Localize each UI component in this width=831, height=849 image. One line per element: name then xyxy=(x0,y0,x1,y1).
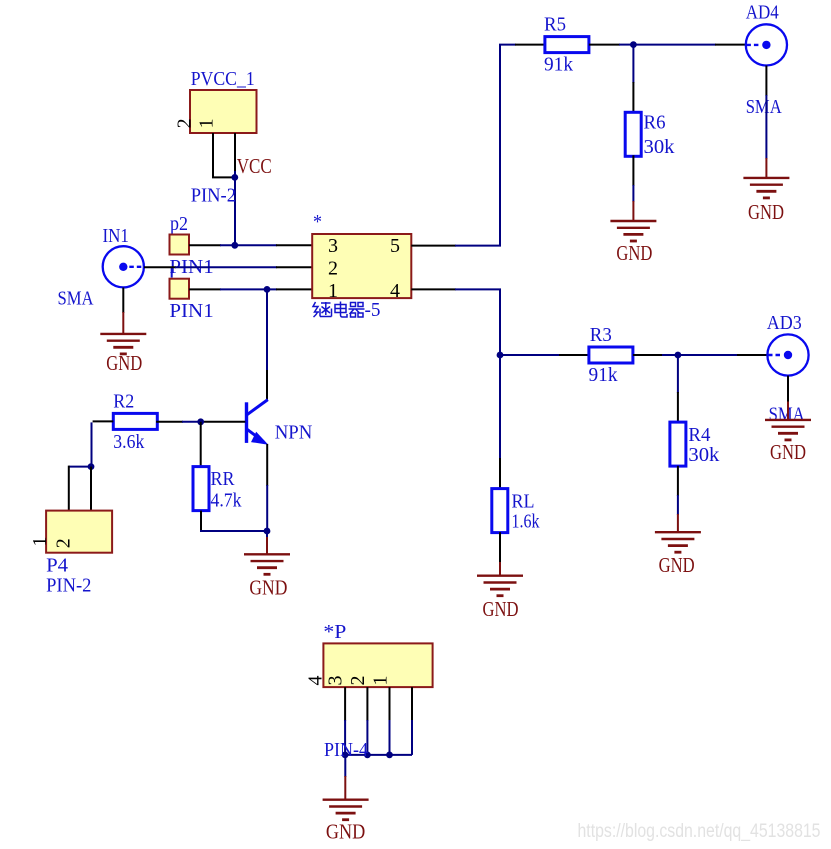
wire IN1 to relay pin2 xyxy=(144,266,312,268)
wire relay pin4 to junction xyxy=(411,289,500,355)
junction *P pin4 xyxy=(342,752,349,759)
svg-text:GND: GND xyxy=(659,553,695,577)
pin number 3 of *P xyxy=(325,676,347,686)
value 30k of R6 xyxy=(644,136,675,158)
wire *P to GND xyxy=(344,755,346,800)
pin number 1 of P4 xyxy=(29,537,51,547)
svg-text:PIN-2: PIN-2 xyxy=(46,575,91,597)
svg-text:PIN1: PIN1 xyxy=(169,300,213,322)
wire junction to P4 pin left xyxy=(69,466,92,511)
label SMA of AD3 xyxy=(769,404,805,426)
junction *P pin2 xyxy=(386,752,393,759)
svg-text:p2: p2 xyxy=(170,213,188,235)
relay type label (CJK) xyxy=(313,302,365,318)
pin number 4 xyxy=(390,280,400,302)
junction base R2 RR xyxy=(197,418,204,425)
junction VCC wire to pin3 wire xyxy=(231,242,238,249)
label R5 xyxy=(544,13,566,35)
wire IN1 to GND xyxy=(122,288,124,334)
svg-text:1: 1 xyxy=(370,676,392,686)
resistor R6 xyxy=(625,112,641,156)
relay body xyxy=(312,234,411,298)
wire R5 to junction xyxy=(589,44,634,46)
watermark xyxy=(578,820,821,842)
svg-text:GND: GND xyxy=(106,351,142,375)
value 3.6k of R2 xyxy=(113,431,144,453)
junction RL R3 xyxy=(497,352,504,359)
value 30k of R4 xyxy=(688,444,719,466)
svg-text:1: 1 xyxy=(328,280,338,302)
connector *P label xyxy=(323,621,346,643)
junction *P pin3 xyxy=(364,752,371,759)
label GND under NPN xyxy=(249,576,287,600)
wire NPN emitter down xyxy=(266,444,268,531)
connector p2 box upper xyxy=(170,235,190,255)
svg-text:VCC: VCC xyxy=(237,154,272,178)
label SMA of IN1 xyxy=(58,288,94,310)
label GND under RL xyxy=(483,597,519,621)
label R6 xyxy=(644,112,666,134)
ground symbol under R6 xyxy=(610,221,656,241)
wire R6 to GND xyxy=(632,155,634,221)
wire AD4 to GND xyxy=(765,66,767,178)
svg-text:PIN-2: PIN-2 xyxy=(191,185,236,207)
svg-text:1.6k: 1.6k xyxy=(512,511,540,533)
wire *P pin1 down xyxy=(411,687,413,755)
wire AD3 to GND xyxy=(787,376,789,420)
resistor R4 xyxy=(670,422,686,466)
label R2 xyxy=(113,391,134,413)
wire p2 upper to relay pin3 xyxy=(189,244,312,246)
svg-text:GND: GND xyxy=(249,576,287,600)
ground symbol under R4 xyxy=(655,532,701,552)
connector p2 label xyxy=(170,213,188,235)
svg-text:91k: 91k xyxy=(589,364,618,386)
ground symbol under *P xyxy=(323,800,369,820)
svg-text:4: 4 xyxy=(390,280,400,302)
net label PIN1 middle xyxy=(169,256,213,278)
wire base junction down to RR xyxy=(200,422,202,467)
value 91k of R3 xyxy=(589,364,618,386)
wire R3 to junction R4 xyxy=(633,354,679,356)
wire junction to AD3 xyxy=(678,354,767,356)
wire NPN base xyxy=(204,421,245,423)
wire R4 to GND xyxy=(677,466,679,532)
connector IN1 SMA circle xyxy=(103,246,144,287)
svg-text:GND: GND xyxy=(483,597,519,621)
pin number 1 xyxy=(328,280,338,302)
label GND under AD4 xyxy=(748,200,784,224)
ground symbol under AD4 xyxy=(743,178,789,198)
svg-text:91k: 91k xyxy=(544,53,573,75)
connector p2 box lower xyxy=(170,279,190,299)
svg-text:SMA: SMA xyxy=(58,288,94,310)
wire R2 to base junction xyxy=(156,421,201,423)
connector PVCC_1 body xyxy=(190,90,257,133)
ground symbol under RL xyxy=(477,576,523,596)
relay type label -5 xyxy=(365,299,381,321)
wire relay pin4(5) to R5 xyxy=(411,45,545,246)
resistor R2 xyxy=(113,413,157,429)
label RL xyxy=(512,491,535,513)
transistor NPN xyxy=(247,400,269,445)
label NPN xyxy=(275,422,313,444)
junction PVCC pins xyxy=(231,174,238,181)
label GND under R4 xyxy=(659,553,695,577)
connector AD4 label xyxy=(746,2,779,24)
pin number 3 xyxy=(328,235,338,257)
connector *P body xyxy=(323,643,432,687)
wire junction to GND xyxy=(266,531,268,554)
net label PIN-2 xyxy=(191,185,236,207)
ground symbol under NPN xyxy=(244,554,290,574)
resistor R5 xyxy=(545,37,589,53)
designator * of relay xyxy=(313,211,322,233)
svg-text:4: 4 xyxy=(305,676,327,686)
resistor RL xyxy=(492,489,508,533)
pin number 1 of PVCC_1 xyxy=(195,118,217,128)
value 1.6k of RL xyxy=(512,511,540,533)
wire PVCC_1 pin1 down (VCC net) xyxy=(234,133,236,245)
label SMA of AD4 xyxy=(746,96,782,118)
svg-text:2: 2 xyxy=(328,258,338,280)
net label PIN1 lower xyxy=(169,300,213,322)
pin number 2 xyxy=(328,258,338,280)
svg-text:5: 5 xyxy=(390,235,400,257)
label GND under AD3 xyxy=(770,440,806,464)
pin number 2 of P4 xyxy=(53,538,75,548)
svg-text:2: 2 xyxy=(347,676,369,686)
junction emitter RR GND xyxy=(264,528,271,535)
svg-text:2: 2 xyxy=(174,118,196,128)
junction R3 R4 AD3 xyxy=(675,352,682,359)
label R3 xyxy=(590,324,612,346)
net label PIN-2 of P4 xyxy=(46,575,91,597)
svg-text:4.7k: 4.7k xyxy=(211,490,242,512)
junction pin1 wire to transistor xyxy=(264,286,271,293)
svg-text:P4: P4 xyxy=(46,555,68,577)
wire junction to R3 xyxy=(500,354,589,356)
label R4 xyxy=(688,424,710,446)
wire RR to emitter junction xyxy=(200,511,267,531)
svg-text:AD4: AD4 xyxy=(746,2,779,24)
svg-text:-5: -5 xyxy=(365,299,381,321)
net label PIN-4 xyxy=(324,739,368,761)
connector PVCC_1 label xyxy=(191,68,255,90)
svg-text:1: 1 xyxy=(29,537,51,547)
connector P4 label xyxy=(46,555,68,577)
pin number 5 xyxy=(390,235,400,257)
wire RL to GND xyxy=(499,532,501,576)
ground symbol under AD3 xyxy=(765,420,811,440)
svg-text:3.6k: 3.6k xyxy=(113,431,144,453)
svg-text:R4: R4 xyxy=(688,424,710,446)
pin number 2 of PVCC_1 xyxy=(174,118,196,128)
wire *P pin4 down xyxy=(344,687,346,755)
value 4.7k of RR xyxy=(211,490,242,512)
wire *P pin2 down xyxy=(389,687,391,755)
wire junction down to NPN collector xyxy=(266,289,268,399)
svg-text:GND: GND xyxy=(748,200,784,224)
connector AD3 label xyxy=(767,312,802,334)
svg-text:3: 3 xyxy=(325,676,347,686)
svg-text:SMA: SMA xyxy=(769,404,805,426)
pin number 1 of *P xyxy=(370,676,392,686)
label GND under *P xyxy=(326,820,365,844)
svg-text:R5: R5 xyxy=(544,13,566,35)
svg-text:3: 3 xyxy=(328,235,338,257)
svg-text:GND: GND xyxy=(616,241,652,265)
connector AD3 SMA circle xyxy=(767,334,808,375)
connector P4 body xyxy=(46,511,112,553)
svg-text:30k: 30k xyxy=(688,444,719,466)
label GND under IN1 xyxy=(106,351,142,375)
svg-text:SMA: SMA xyxy=(746,96,782,118)
svg-text:AD3: AD3 xyxy=(767,312,802,334)
svg-text:*: * xyxy=(313,211,322,233)
svg-text:PVCC_1: PVCC_1 xyxy=(191,68,255,90)
wire R2 left down to P4 xyxy=(92,421,114,466)
value 91k of R5 xyxy=(544,53,573,75)
connector IN1 label xyxy=(103,225,129,247)
svg-text:IN1: IN1 xyxy=(103,225,129,247)
resistor RR xyxy=(193,467,209,511)
svg-text:https://blog.csdn.net/qq_45138: https://blog.csdn.net/qq_45138815 xyxy=(578,820,821,842)
svg-text:R3: R3 xyxy=(590,324,612,346)
wire junction down to RL xyxy=(499,355,501,489)
svg-text:NPN: NPN xyxy=(275,422,313,444)
junction P4 pins xyxy=(88,463,95,470)
svg-text:*P: *P xyxy=(323,621,346,643)
wire junction down to R4 xyxy=(677,355,679,422)
svg-text:GND: GND xyxy=(770,440,806,464)
wire junction to P4 pin right xyxy=(90,467,92,511)
wire *P pin3 down xyxy=(366,687,368,755)
ground symbol under IN1 xyxy=(100,334,146,354)
svg-text:GND: GND xyxy=(326,820,365,844)
wire junction to AD4 xyxy=(633,44,745,46)
wire p2 lower to relay pin1 xyxy=(189,288,312,290)
wire *P bus xyxy=(345,754,412,756)
connector AD4 SMA circle xyxy=(746,24,787,65)
svg-text:R6: R6 xyxy=(644,112,666,134)
wire junction down to R6 xyxy=(632,45,634,113)
svg-text:RL: RL xyxy=(512,491,535,513)
label GND under R6 xyxy=(616,241,652,265)
svg-text:1: 1 xyxy=(195,118,217,128)
net label VCC xyxy=(237,154,272,178)
label RR xyxy=(211,468,236,490)
svg-text:2: 2 xyxy=(53,538,75,548)
pin number 4 of *P xyxy=(305,676,327,686)
svg-text:30k: 30k xyxy=(644,136,675,158)
wire PVCC_1 pin2 to junction xyxy=(212,133,234,177)
svg-text:RR: RR xyxy=(211,468,236,490)
junction R5 R6 AD4 xyxy=(630,41,637,48)
svg-text:R2: R2 xyxy=(113,391,134,413)
pin number 2 of *P xyxy=(347,676,369,686)
resistor R3 xyxy=(589,347,633,363)
